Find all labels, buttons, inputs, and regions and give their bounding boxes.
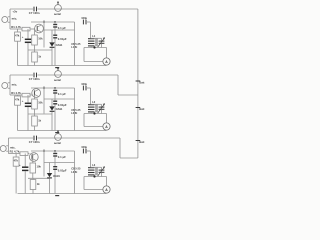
wire: tank left drop vertical: [83, 114, 85, 127]
wire: meter bottom lead: [106, 64, 108, 66]
wire: stage 3 supply jog down: [119, 138, 121, 158]
svg-text:Batt: Batt: [139, 80, 144, 84]
junction dot at caps column: [54, 150, 56, 152]
wire: drop horizontal to meter: [84, 189, 103, 191]
wire: R1b to ground rail: [17, 41, 19, 65]
wire: diode branch upper: [51, 99, 53, 106]
microphone M2 top lead: [8, 82, 10, 84]
capacitor C3a plates (series cap on supply rail): [33, 136, 35, 141]
diode D1 triangle: [49, 42, 54, 46]
microphone M1 body: [2, 17, 8, 23]
svg-text:C7 100n: C7 100n: [29, 77, 40, 81]
wire: corner down to coil: [90, 151, 92, 167]
meter A1 body: [103, 58, 110, 65]
svg-text:C7 100n: C7 100n: [29, 140, 40, 144]
resistor R1b (vertical box): [15, 32, 21, 41]
inductor L2 winding bars: [88, 104, 95, 106]
wire: resistor to transistor: [30, 28, 35, 30]
svg-text:mic.: mic.: [12, 17, 18, 21]
wire: caps column lower to ground rail: [54, 39, 56, 66]
svg-text:+: +: [19, 163, 21, 167]
trimmer VC3 top plate: [99, 169, 105, 171]
wire: stage 1 supply rail left segment: [10, 8, 33, 10]
capacitor C3c bottom plate: [53, 168, 57, 170]
wire: meter bottom lead: [106, 129, 108, 131]
svg-text:C7 100n: C7 100n: [29, 11, 40, 15]
microphone M1 top lead: [8, 16, 10, 18]
svg-text:OA91: OA91: [56, 107, 63, 111]
microphone M3 body: [0, 146, 6, 152]
wire: R2d top stub: [34, 114, 36, 116]
wire: R1c lower stub: [34, 45, 36, 50]
junction dot on tank bar: [93, 112, 95, 114]
svg-text:0.01µF: 0.01µF: [58, 169, 67, 173]
svg-text:0.01µF: 0.01µF: [58, 103, 67, 107]
diode D2 triangle: [49, 106, 54, 110]
wire: horizontal emitter line: [28, 177, 50, 179]
svg-text:Batt: Batt: [139, 140, 144, 144]
wire: stage 2 supply rail left segment: [10, 74, 33, 76]
capacitor C1a plates (series cap on supply rail): [33, 7, 35, 12]
junction dot on tank bar: [93, 46, 95, 48]
inductor L3 core bars: [95, 167, 97, 175]
capacitor C2a plates (series cap on supply rail): [33, 73, 35, 78]
wire: diode to ground rail: [51, 112, 53, 131]
capacitor C1b top plate: [53, 24, 57, 26]
microphone M2 body: [2, 83, 8, 89]
resistor R1a (horizontal box): [22, 27, 30, 31]
aerial terminal J3 (circle on supply rail): [55, 134, 62, 141]
svg-text:L3 6t: L3 6t: [71, 170, 77, 174]
svg-text:L1 6t: L1 6t: [71, 45, 77, 49]
svg-text:R1 4.7k: R1 4.7k: [11, 25, 21, 29]
svg-text:+: +: [22, 35, 24, 39]
wire: caps column upper: [54, 88, 56, 90]
battery tap 1 tick: [136, 80, 141, 82]
wire: meter top lead: [106, 177, 108, 186]
svg-text:0.1 µF: 0.1 µF: [58, 155, 66, 159]
trimmer VC2 top plate: [99, 106, 105, 108]
svg-text:1k: 1k: [38, 118, 41, 122]
junction dot on collector line: [43, 150, 45, 152]
capacitor C1b bottom plate: [53, 26, 57, 28]
capacitor C3d top plate (electrolytic): [22, 166, 28, 168]
wire: tank bottom junction bar: [84, 113, 107, 115]
inductor L1 winding bars: [88, 38, 95, 40]
svg-text:A: A: [105, 60, 108, 64]
capacitor C2c top plate: [53, 100, 57, 102]
resistor R3a (horizontal box): [20, 152, 28, 156]
wire: caps column middle: [54, 28, 56, 35]
svg-text:OA91: OA91: [53, 174, 60, 178]
svg-text:10k: 10k: [38, 36, 43, 40]
wire: base wire: [10, 94, 22, 96]
ground symbol tick: [55, 132, 59, 134]
diode D1 cathode bar: [50, 46, 55, 48]
wire: R3b to ground rail: [15, 166, 17, 193]
wire: stage 3 ground rail: [18, 193, 107, 195]
capacitor C1e left plate: [82, 20, 84, 25]
svg-text:L3: L3: [92, 163, 96, 167]
wire: diode to ground rail: [49, 178, 51, 193]
wire: cap to corner: [87, 87, 91, 89]
wire: stub to R1c: [34, 29, 36, 35]
resistor R2a (horizontal box): [22, 93, 30, 97]
svg-text:0.1 µF: 0.1 µF: [58, 92, 66, 96]
wire: stage 2 supply rail right segment: [38, 74, 119, 76]
wire: trimmer bottom lead: [101, 110, 103, 114]
svg-text:47k: 47k: [15, 34, 20, 38]
wire: stage 3 supply jog right: [120, 157, 138, 159]
wire: vertical feedback line x44: [43, 86, 45, 114]
wire: vertical x74.5 down to ground: [74, 22, 76, 66]
svg-text:+: +: [22, 99, 24, 103]
svg-text:0.1 µF: 0.1 µF: [58, 26, 66, 30]
wire: base wire: [10, 28, 22, 30]
wire: trimmer top lead: [91, 103, 102, 105]
resistor R3d (vertical box): [30, 180, 36, 190]
svg-text:C8 5-25: C8 5-25: [71, 167, 81, 171]
capacitor C3d bottom plate (electrolytic): [22, 169, 28, 171]
svg-text:47k: 47k: [14, 159, 19, 163]
transistor Q3 collector lead: [32, 153, 36, 155]
wire: cap to corner: [87, 21, 91, 23]
trimmer VC1 bottom plate: [99, 42, 105, 44]
capacitor C3c top plate: [53, 166, 57, 168]
svg-text:L1: L1: [92, 34, 96, 38]
battery rail vertical: [137, 9, 139, 158]
wire: caps column lower to ground rail: [54, 105, 56, 131]
resistor R2d (vertical box): [32, 116, 38, 126]
wire: trimmer top lead: [91, 37, 102, 39]
wire: caps column middle: [54, 157, 56, 166]
stem of J3: [57, 131, 59, 133]
wire: R1d top stub: [34, 50, 36, 52]
battery tap 3 tick: [136, 140, 141, 142]
trimmer VC3 arrow: [98, 167, 105, 177]
battery tap 2 tick: [136, 107, 141, 109]
svg-text:100p: 100p: [81, 145, 87, 149]
trimmer VC2 arrow: [98, 104, 105, 114]
wire: diode branch upper: [51, 30, 53, 42]
wire: drop horizontal to meter: [84, 61, 103, 63]
wire: meter top lead: [106, 48, 108, 58]
wire: stub to R3b: [15, 154, 17, 158]
wire: stub to R2b: [17, 95, 19, 96]
wire: drop horizontal to meter: [84, 126, 103, 128]
capacitor C2c bottom plate: [53, 103, 57, 105]
wire: C2d to ground rail: [27, 107, 29, 131]
svg-text:1k: 1k: [38, 54, 41, 58]
transistor Q1 collector lead: [37, 25, 41, 27]
transistor Q3 base bar: [31, 154, 33, 159]
wire: stage 2 supply jog right: [118, 94, 138, 96]
wire: vertical x74.5 down to ground: [74, 151, 76, 194]
transistor Q1 base bar: [36, 26, 38, 31]
diode D2 cathode bar: [50, 110, 55, 112]
inductor L3 winding bars: [88, 167, 95, 169]
wire: collector line to tank: [31, 87, 75, 89]
stem of J1: [57, 2, 59, 4]
wire: stage 1 ground rail: [18, 65, 107, 67]
trimmer VC2 bottom plate: [99, 108, 105, 110]
junction dot on tank bar: [93, 175, 95, 177]
wire: tank left drop vertical: [83, 48, 85, 62]
wire: stub to R2c: [34, 95, 36, 99]
wire: R2d to ground rail: [34, 126, 36, 131]
wire: horizontal emitter line: [28, 49, 52, 51]
wire: tank bottom junction bar: [84, 176, 107, 178]
resistor R3c (vertical box): [30, 163, 36, 173]
capacitor C3e left plate: [82, 149, 84, 154]
wire: caps column lower to ground rail: [54, 170, 56, 193]
capacitor C2e left plate: [82, 86, 84, 91]
capacitor C1d top plate (electrolytic): [25, 38, 31, 40]
transistor Q3 emitter lead: [32, 158, 36, 160]
wire: trimmer bottom lead: [101, 44, 103, 48]
wire: R3d top stub: [32, 178, 34, 179]
wire: coil bottom lead: [90, 46, 92, 48]
junction dot at caps column: [54, 87, 56, 89]
wire: collector line to tank: [31, 21, 75, 23]
inductor L2 core bars: [95, 104, 97, 112]
wire: horizontal emitter line: [28, 113, 52, 115]
wire: caps column upper: [54, 151, 56, 153]
wire: stub to R1b: [17, 29, 19, 32]
diode D3 triangle: [47, 173, 52, 177]
wire: R2c lower stub: [34, 109, 36, 114]
junction dot at caps column: [54, 21, 56, 23]
wire: R3c lower stub: [32, 173, 34, 178]
meter A3 body: [103, 186, 110, 193]
svg-text:0.01µF: 0.01µF: [58, 37, 67, 41]
microphone M1 bottom lead: [8, 21, 10, 23]
svg-text:47k: 47k: [15, 98, 20, 102]
wire: coil bottom lead: [90, 175, 92, 177]
capacitor C2d bottom plate (electrolytic): [25, 105, 31, 107]
junction dot on collector line: [43, 87, 45, 89]
wire: second horizontal line: [44, 29, 75, 31]
transistor Q3 body: [29, 153, 38, 162]
transistor Q1 emitter lead: [37, 30, 41, 32]
inductor L1 core bars: [95, 38, 97, 46]
diode D3 cathode bar: [47, 177, 52, 179]
wire: vertical x74.5 down to ground: [74, 88, 76, 131]
capacitor C3b bottom plate: [53, 155, 57, 157]
wire: stage 2 ground rail: [18, 130, 107, 132]
wire: stage 3 supply rail left segment: [8, 137, 33, 139]
capacitor C3b top plate: [53, 153, 57, 155]
transistor Q2 body: [32, 89, 41, 98]
meter A2 body: [103, 123, 110, 130]
resistor R2b (vertical box): [15, 96, 21, 105]
svg-text:R1 4.7k: R1 4.7k: [11, 91, 21, 95]
capacitor C1d bottom plate (electrolytic): [25, 41, 31, 43]
svg-text:aerial: aerial: [54, 78, 61, 82]
aerial terminal J1 (circle on supply rail): [55, 5, 62, 12]
wire: caps column upper: [54, 22, 56, 24]
wire: stub to R3c: [32, 154, 34, 164]
microphone M3 top lead: [6, 145, 8, 147]
svg-text:100p: 100p: [81, 82, 87, 86]
svg-text:+3v: +3v: [12, 9, 17, 13]
svg-text:aerial: aerial: [54, 141, 61, 145]
ground symbol tick: [55, 67, 59, 69]
transistor Q2 base bar: [33, 90, 35, 95]
svg-text:OA91: OA91: [56, 43, 63, 47]
svg-text:L2 6t: L2 6t: [71, 111, 77, 115]
transistor Q2 collector lead: [34, 89, 38, 91]
capacitor C2e right plate: [85, 86, 87, 91]
capacitor C1e right plate: [85, 20, 87, 25]
svg-text:aerial: aerial: [54, 12, 61, 16]
resistor R1d (vertical box): [32, 52, 38, 62]
resistor R1c (vertical box): [32, 35, 38, 45]
capacitor C1c bottom plate: [53, 37, 57, 39]
wire: R2b to ground rail: [17, 105, 19, 130]
svg-text:L2: L2: [92, 100, 96, 104]
capacitor C1c top plate: [53, 34, 57, 36]
transistor Q1 body: [35, 24, 44, 33]
wire: meter top lead: [106, 114, 108, 123]
svg-text:10k: 10k: [38, 100, 43, 104]
wire: resistor to transistor: [30, 94, 32, 96]
wire: meter bottom lead: [106, 192, 108, 194]
wire: stage 2 left vertical from rail: [9, 75, 11, 95]
aerial terminal J2 (circle on supply rail): [55, 71, 62, 78]
stem of J2: [57, 68, 59, 70]
wire: second horizontal line: [44, 162, 75, 164]
capacitor C2b bottom plate: [53, 92, 57, 94]
wire: vertical feedback line x44: [43, 20, 45, 48]
wire: coil bottom lead: [90, 112, 92, 114]
svg-text:A: A: [105, 125, 108, 129]
trimmer VC1 arrow: [98, 38, 105, 48]
capacitor C2d top plate (electrolytic): [25, 102, 31, 104]
svg-text:1k: 1k: [37, 182, 40, 186]
wire: cap to corner: [87, 150, 91, 152]
wire: resistor to transistor: [28, 153, 29, 155]
wire: vertical feedback line x44: [43, 149, 45, 177]
ground symbol tick: [55, 195, 59, 197]
wire: tank bottom junction bar: [84, 47, 107, 49]
wire: collector line to tank: [31, 150, 75, 152]
svg-text:R1 4.7k: R1 4.7k: [10, 149, 20, 153]
transistor Q2 emitter lead: [34, 94, 38, 96]
capacitor C3e right plate: [85, 149, 87, 154]
trimmer VC1 top plate: [99, 40, 105, 42]
svg-text:Batt: Batt: [139, 107, 144, 111]
svg-text:mic.: mic.: [12, 83, 18, 87]
wire: stage 3 supply rail right segment: [38, 137, 121, 139]
svg-text:10k: 10k: [37, 164, 42, 168]
wire: diode branch upper: [49, 163, 51, 173]
wire: stub to C3d: [24, 154, 26, 167]
wire: caps column middle: [54, 94, 56, 101]
wire: R1d to ground rail: [34, 62, 36, 66]
wire: R3d to ground rail: [32, 190, 34, 194]
wire: corner down to coil: [90, 88, 92, 104]
wire: stage 3 left vertical from rail: [7, 138, 9, 154]
resistor R2c (vertical box): [32, 99, 38, 109]
wire: trimmer bottom lead: [101, 173, 103, 177]
resistor R3b (vertical box): [13, 157, 19, 166]
wire: base wire: [8, 153, 20, 155]
svg-text:100p: 100p: [81, 16, 87, 20]
junction dot on collector line: [43, 21, 45, 23]
trimmer VC3 bottom plate: [99, 171, 105, 173]
wire: diode to ground rail: [51, 48, 53, 66]
svg-text:A: A: [105, 188, 108, 192]
wire: corner down to coil: [90, 22, 92, 38]
wire: trimmer top lead: [91, 166, 102, 168]
microphone M3 bottom lead: [6, 150, 8, 152]
wire: C1d to ground rail: [27, 43, 29, 66]
wire: stub to C1d: [27, 29, 29, 39]
capacitor C2b top plate: [53, 90, 57, 92]
wire: stub to C2d: [27, 95, 29, 103]
wire: stage 2 supply jog down: [117, 75, 119, 95]
wire: stage 1 supply rail right segment: [38, 8, 138, 10]
wire: second horizontal line: [44, 98, 75, 100]
microphone M2 bottom lead: [8, 87, 10, 89]
wire: tank left drop vertical: [83, 177, 85, 190]
wire: stage 1 left vertical from rail: [9, 9, 11, 29]
wire: C3d to ground rail: [24, 171, 26, 193]
